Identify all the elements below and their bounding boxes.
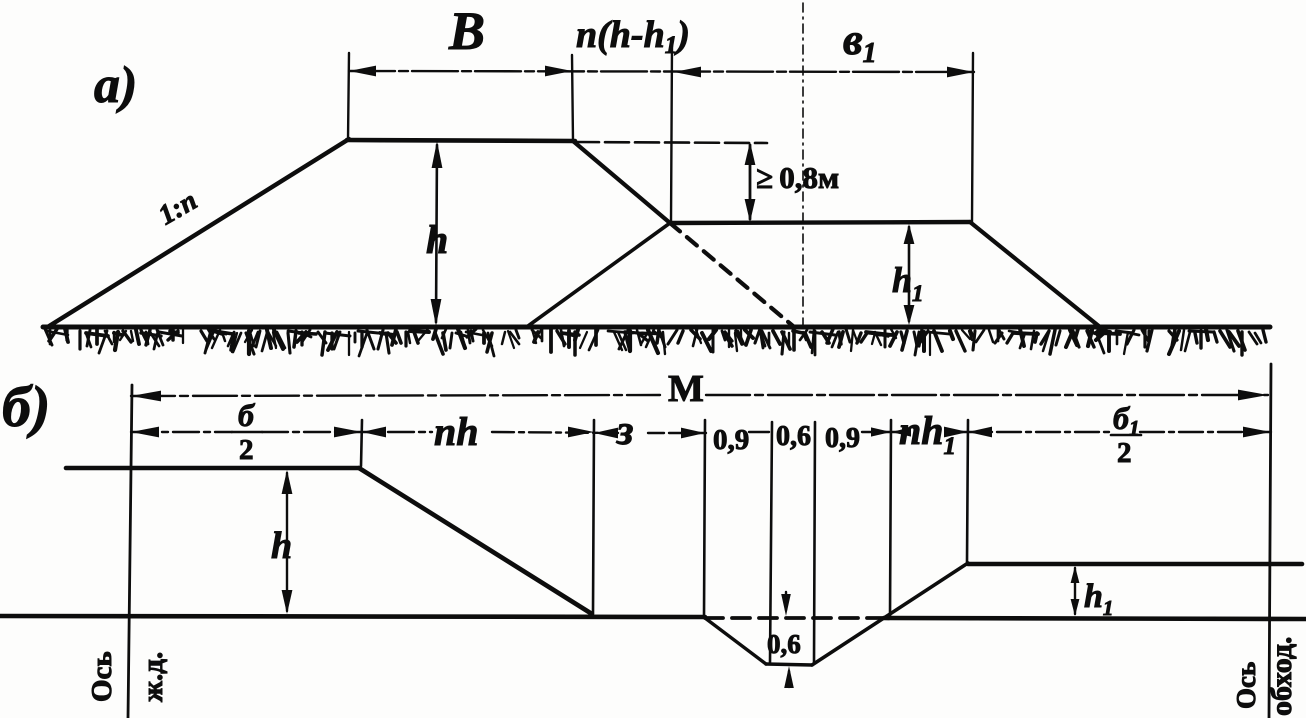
svg-text:М: М [668, 368, 704, 410]
svg-text:В: В [448, 1, 485, 61]
svg-text:0,9: 0,9 [825, 423, 860, 454]
h1 dimension [908, 227, 911, 321]
tick x=891 (ditch right) [890, 420, 891, 617]
tick x=772 (ditch bottom left) [770, 422, 772, 662]
svg-text:Ось: Ось [86, 651, 118, 702]
tick x=594 (slope foot) [593, 420, 594, 613]
ditch bottom [766, 664, 812, 665]
ditch right slope / bypass embankment slope [812, 563, 968, 665]
axis obhod vertical [1269, 364, 1271, 718]
svg-text:nh: nh [434, 409, 479, 454]
h1 dimension fig b [1074, 568, 1076, 614]
svg-text:0,6: 0,6 [776, 421, 811, 452]
dimension line B / n(h-h1) / v1 (dash-dot) [349, 71, 974, 72]
tick x=968 (bypass crest corner) [967, 420, 968, 562]
fraction b1/2 [1111, 400, 1141, 469]
extension line x=672 (down to slope junction) [671, 45, 672, 223]
svg-text:nh1: nh1 [899, 408, 956, 460]
svg-text:h1: h1 [892, 260, 924, 306]
svg-text:h: h [426, 217, 448, 262]
old embankment right slope [970, 222, 1100, 327]
svg-text:n(h-h1): n(h-h1) [576, 14, 690, 59]
ditch left slope [705, 618, 766, 664]
crest top line [347, 140, 575, 141]
left slope 1:n [46, 139, 349, 328]
svg-text:б: б [238, 397, 256, 433]
dashed design slope through old fill [670, 223, 793, 326]
bypass roadbed surface [968, 562, 1302, 567]
lower dimension line segments [131, 431, 232, 433]
bench top (old embankment crest) [670, 222, 970, 223]
svg-text:а): а) [94, 57, 137, 114]
svg-text:0,6: 0,6 [767, 629, 801, 659]
svg-text:ж.д.: ж.д. [137, 652, 169, 702]
h dimension fig b [286, 473, 288, 611]
0,6 ditch depth dimension [785, 592, 787, 610]
track centerline (dash-dot) [802, 3, 804, 327]
tick x=705 (ditch left) [704, 420, 705, 617]
slope of main embankment [359, 468, 592, 614]
svg-text:в1: в1 [843, 15, 877, 69]
extension line left crest x=349 [348, 53, 349, 140]
svg-text:≥ 0,8м: ≥ 0,8м [756, 160, 839, 195]
extension line right x=974 [972, 53, 973, 222]
right slope upper (new embankment) [573, 141, 670, 223]
h dimension [436, 145, 437, 322]
roadbed surface line (zh.d.) [66, 466, 359, 471]
tick x=362 (crest corner) [361, 420, 362, 466]
svg-text:з: з [616, 408, 633, 454]
svg-text:h1: h1 [1084, 578, 1113, 620]
M dimension line (dash-dot) [131, 395, 660, 396]
svg-text:1:n: 1:n [153, 185, 202, 231]
arrows on top dimension line [349, 66, 974, 78]
svg-text:2: 2 [239, 434, 254, 466]
>=0.8m dimension [749, 145, 752, 219]
svg-text:h: h [271, 525, 292, 567]
old embankment left slope [528, 223, 670, 326]
extension line x=572 [572, 55, 573, 141]
svg-text:б): б) [2, 374, 50, 439]
svg-text:2: 2 [1117, 437, 1132, 469]
ground dashed across ditch [705, 616, 884, 620]
ground line fig a [43, 325, 1270, 330]
svg-text:Ось: Ось [1231, 662, 1261, 709]
crest level extension (dashed) to 0.8m dim [575, 142, 767, 143]
svg-text:обход.: обход. [1265, 636, 1298, 716]
ground hatching [45, 329, 1266, 356]
svg-text:0,9: 0,9 [713, 424, 749, 456]
fraction b/2 [232, 397, 262, 466]
tick x=815 (ditch bottom right) [814, 422, 815, 663]
ground solid right [884, 618, 1306, 619]
ground line fig b: solid left [0, 616, 705, 617]
axis zh.d. vertical [128, 385, 132, 718]
